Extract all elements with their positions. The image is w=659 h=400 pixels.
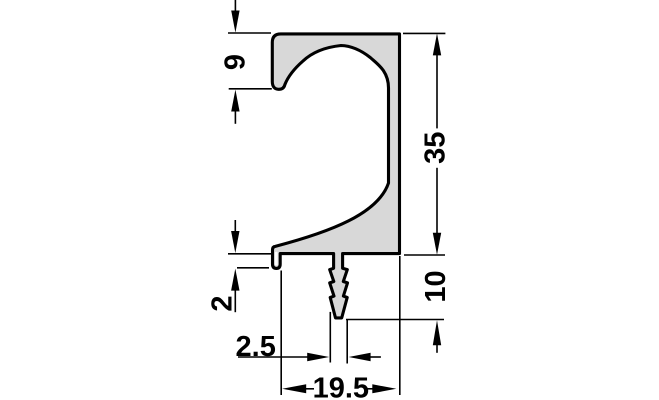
svg-text:19.5: 19.5 xyxy=(313,373,369,400)
dim 2: bottom arrow stem xyxy=(234,289,236,312)
dim 19.5: left arrowhead (left-pointing) xyxy=(282,384,306,393)
white slot inside bottom-left hook lip xyxy=(275,252,278,266)
dim 19.5: left tail xyxy=(305,388,314,390)
dim 2.5: left tail line xyxy=(238,356,308,358)
svg-text:35: 35 xyxy=(420,132,452,164)
svg-text:2: 2 xyxy=(206,296,238,312)
svg-text:2.5: 2.5 xyxy=(236,331,276,363)
dim 10: bottom arrow stem xyxy=(436,344,438,353)
dim 35: upper line xyxy=(436,54,438,128)
dim 2.5: right tail line xyxy=(370,356,381,358)
dim 35: top arrowhead (up) xyxy=(433,33,441,55)
extension line 9 bottom xyxy=(229,88,272,90)
extension line 2 top xyxy=(228,253,272,255)
dim 9: top arrowhead (down) xyxy=(231,11,239,33)
dim 2: bottom arrowhead (up) xyxy=(231,269,239,291)
dim 10: bottom arrowhead (up) xyxy=(433,320,441,345)
extension line 19.5 left xyxy=(280,271,282,396)
dim 9: top arrow stem xyxy=(234,0,236,12)
dim 9: bottom arrowhead (up) xyxy=(231,90,239,112)
dim 9: bottom arrow stem xyxy=(234,110,236,124)
profile cross-section (gray aluminium handle) xyxy=(272,34,399,318)
extension line 19.5 right xyxy=(399,256,401,395)
dim 35: lower line xyxy=(436,168,438,234)
extension line 2.5 right xyxy=(346,319,348,363)
dim 2.5: right arrowhead (left-pointing) xyxy=(349,353,371,361)
dim 2: top arrow stem xyxy=(234,220,236,232)
svg-text:9: 9 xyxy=(220,54,252,70)
dim 2.5: left arrowhead (right-pointing) xyxy=(307,353,329,361)
extension line 2 bottom xyxy=(237,267,269,269)
extension line 10 bottom xyxy=(346,319,444,321)
dim 35: bottom arrowhead (down) xyxy=(433,233,441,255)
extension line 35/10 shared bottom xyxy=(404,254,445,256)
extension line 9 top xyxy=(228,32,271,34)
svg-text:10: 10 xyxy=(420,270,452,302)
dim 2: top arrowhead (down) xyxy=(231,231,239,253)
extension line 2.5 left xyxy=(329,312,331,363)
dim 19.5: right arrowhead (right-pointing) xyxy=(372,384,396,393)
extension line 35 top xyxy=(403,32,445,34)
dim 19.5: right tail xyxy=(367,388,373,390)
